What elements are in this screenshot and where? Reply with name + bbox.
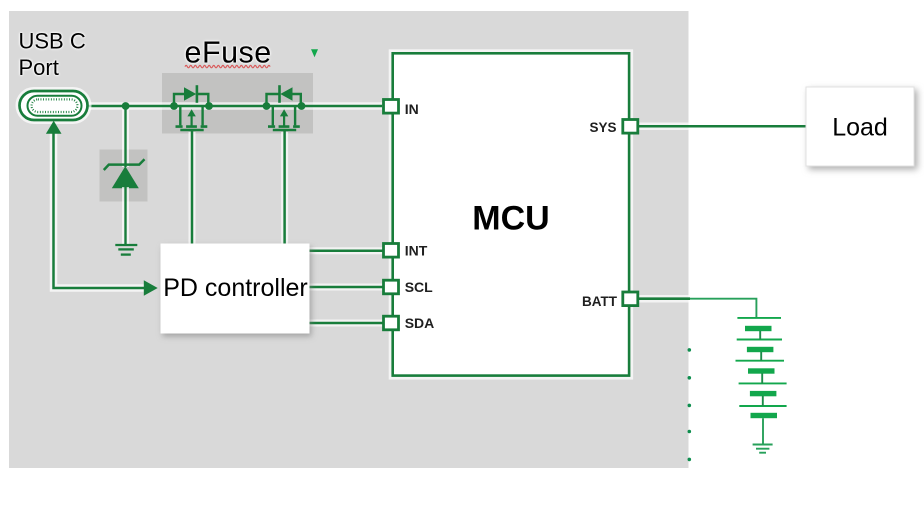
svg-text:IN: IN [405, 101, 419, 117]
arrowhead into PD controller (right) [144, 280, 158, 296]
wire: CC feedback line (USB port down, right to PD controller) [54, 131, 147, 288]
wire: TVS anode to ground [122, 187, 129, 245]
MOSFET Q1 body diode [184, 85, 197, 103]
svg-text:INT: INT [405, 242, 428, 258]
pin SDA label [405, 315, 435, 331]
battery inter-cell stem 1 [759, 331, 761, 340]
MOSFET Q2 body diode loop [267, 94, 301, 106]
pin BATT label [582, 294, 618, 309]
spell-check squiggle under eFuse [185, 65, 270, 67]
MCU label [472, 200, 549, 238]
TVS diode highlight box [100, 150, 148, 202]
PD controller box [161, 244, 310, 334]
Load box [806, 87, 914, 166]
MOSFET Q2 node dot (right) [298, 102, 306, 110]
battery cell 2 long plate [737, 339, 782, 341]
pin IN label [405, 101, 419, 117]
wire: Q1 gate to PD controller [189, 130, 196, 245]
pin IN [384, 100, 399, 114]
wire: PD controller to SCL pin [308, 284, 383, 291]
dropdown marker triangle [311, 49, 318, 57]
svg-text:PD controller: PD controller [163, 274, 308, 302]
battery cell 5 short plate [751, 413, 778, 418]
USB-C receptacle symbol [20, 91, 88, 120]
MOSFET Q2 body diode (mirrored) [280, 85, 293, 103]
svg-text:SYS: SYS [589, 120, 616, 135]
battery inter-cell stem 4 [762, 396, 764, 406]
wire: PD controller to INT pin [308, 247, 383, 254]
MOSFET Q2 gate bar [273, 129, 296, 132]
wire: BATT to battery (dark segment) [639, 295, 690, 303]
wire: PD controller to SDA pin [308, 320, 383, 327]
battery cell 5 long plate [739, 405, 786, 407]
anchor dot 4 [688, 430, 692, 434]
pin SYS label [589, 120, 616, 135]
TVS / zener diode (cathode bar with bent ends) [104, 159, 145, 188]
ground (battery) [753, 445, 773, 453]
PD controller label [163, 274, 308, 302]
svg-text:Port: Port [19, 55, 59, 80]
wire: BATT to battery (light segment) [690, 299, 756, 318]
svg-text:BATT: BATT [582, 294, 618, 309]
MOSFET Q1 body diode loop [174, 94, 208, 106]
pin INT [384, 244, 399, 258]
pin SDA [384, 316, 399, 330]
MOSFET Q2 node dot (left) [263, 102, 271, 110]
wire: Q2 gate to PD controller [281, 130, 288, 245]
ground (TVS) [115, 245, 137, 255]
eFuse label [185, 36, 272, 70]
battery inter-cell stem 3 [761, 373, 763, 383]
MOSFET Q1 substrate arrow [187, 109, 195, 126]
wire: SYS to Load [639, 123, 807, 131]
wire: TVS branch down to diode [122, 106, 129, 167]
svg-text:SDA: SDA [405, 315, 435, 331]
pin BATT [623, 292, 638, 306]
MOSFET Q2 channel structure [268, 107, 300, 127]
pin SCL label [405, 279, 433, 295]
wire: battery negative to ground [762, 418, 764, 444]
eFuse highlight box [162, 73, 313, 134]
battery cell 1 long plate [737, 317, 781, 319]
pin INT label [405, 242, 428, 258]
battery cell 3 short plate [748, 368, 775, 373]
battery cell 4 long plate [739, 382, 787, 384]
anchor dot 3 [688, 404, 692, 408]
MOSFET Q1 channel structure [176, 107, 208, 127]
battery inter-cell stem 2 [760, 352, 762, 361]
arrowhead into USB connector (up) [46, 121, 62, 134]
junction node dot at TVS branch [122, 102, 130, 110]
MOSFET Q1 node dot (right) [205, 102, 213, 110]
battery cell 1 short plate [745, 326, 772, 331]
MOSFET Q1 node dot (left) [170, 102, 178, 110]
USB C Port label [19, 29, 86, 81]
Load label [832, 113, 888, 141]
MOSFET Q2 substrate arrow [280, 109, 288, 126]
anchor dot 2 [688, 376, 692, 380]
MOSFET Q1 gate bar [180, 129, 203, 132]
svg-text:Load: Load [832, 113, 888, 141]
svg-text:eFuse: eFuse [185, 36, 272, 70]
svg-text:MCU: MCU [472, 200, 549, 238]
battery cell 4 short plate [750, 391, 777, 396]
gray schematic canvas [9, 11, 689, 468]
pin SCL [384, 280, 399, 294]
anchor dot 5 [688, 458, 692, 462]
wire: main VBUS rail from USB connector to IN pin [88, 102, 383, 110]
svg-text:SCL: SCL [405, 279, 433, 295]
anchor dot 1 [688, 348, 692, 352]
battery cell 2 short plate [747, 347, 774, 352]
pin SYS [623, 120, 638, 134]
MCU box [393, 53, 629, 375]
battery cell 3 long plate [736, 360, 785, 362]
svg-text:USB C: USB C [19, 29, 86, 54]
